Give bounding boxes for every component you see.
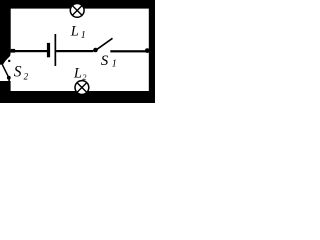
svg-text:2: 2 bbox=[24, 71, 29, 81]
svg-text:1: 1 bbox=[112, 59, 117, 70]
svg-text:1: 1 bbox=[81, 30, 86, 41]
svg-text:L: L bbox=[70, 24, 79, 40]
svg-text:S: S bbox=[101, 53, 109, 69]
svg-text:L: L bbox=[73, 66, 82, 82]
svg-text:S: S bbox=[14, 63, 22, 80]
svg-text:2: 2 bbox=[82, 72, 87, 82]
